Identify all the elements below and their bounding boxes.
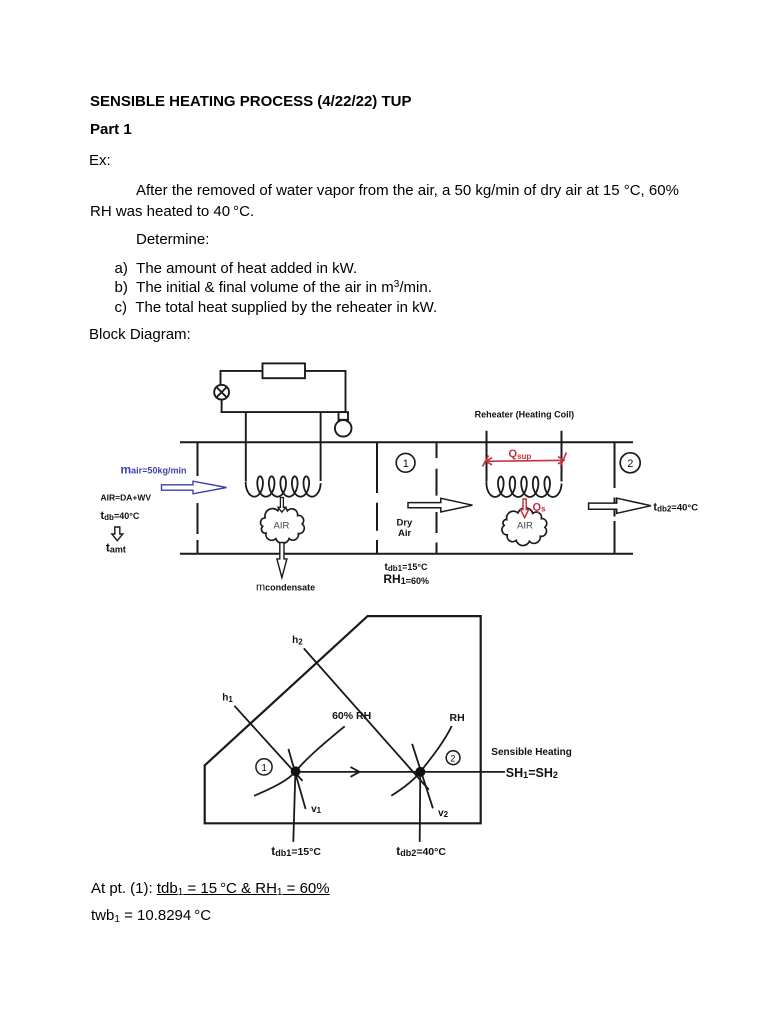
drop wire A / coil left support — [245, 412, 247, 481]
process line 1 to 2 — [296, 771, 505, 773]
svg-text:2: 2 — [450, 753, 455, 763]
60% RH curve — [254, 726, 345, 796]
Qs red arrow — [521, 499, 529, 518]
duct dashed divider 2 — [376, 442, 378, 554]
small down arrow — [112, 527, 123, 541]
svg-text:RH1=60%: RH1=60% — [383, 572, 429, 586]
svg-text:mcondensate: mcondensate — [256, 582, 315, 594]
v1 line — [288, 749, 305, 809]
label Determine: — [136, 231, 209, 248]
svg-text:Air: Air — [398, 528, 412, 539]
svg-text:h1: h1 — [222, 693, 233, 705]
svg-text:tdb2=40°C: tdb2=40°C — [396, 844, 446, 858]
svg-text:Sensible Heating: Sensible Heating — [491, 747, 572, 758]
RH curve at 2 — [391, 726, 451, 796]
wire left lower — [221, 400, 223, 413]
tdb1 vertical — [293, 772, 295, 842]
v2 line — [412, 744, 433, 809]
svg-text:1: 1 — [261, 763, 267, 774]
svg-text:Qsup: Qsup — [509, 448, 532, 461]
condensate arrow — [277, 543, 287, 578]
enthalpy line h2 — [304, 648, 429, 789]
svg-text:AIR: AIR — [517, 521, 533, 532]
svg-text:tdb2=40°C: tdb2=40°C — [653, 502, 698, 514]
label Block Diagram: — [89, 326, 191, 343]
svg-text:tamt: tamt — [106, 541, 126, 555]
duct top wall — [180, 441, 633, 443]
cooling coil — [246, 476, 321, 496]
paragraph — [90, 181, 679, 222]
point 1 dot — [291, 766, 301, 776]
document title — [90, 93, 411, 110]
wire top right — [305, 371, 346, 412]
Qsup double arrow — [483, 453, 567, 467]
svg-text:h2: h2 — [292, 635, 303, 647]
svg-text:v2: v2 — [438, 808, 449, 819]
duct dashed divider 3 — [436, 443, 438, 554]
bottom note line 2 — [91, 907, 211, 924]
cloud 2 — [502, 508, 547, 546]
point circle label 2 — [446, 751, 460, 765]
tdb2 vertical — [419, 772, 422, 842]
svg-text:tdb1=15°C: tdb1=15°C — [271, 844, 321, 858]
duct bottom wall — [180, 553, 633, 555]
svg-text:v1: v1 — [311, 804, 322, 815]
duct station circle 2 — [620, 453, 640, 473]
svg-text:mair=50kg/min: mair=50kg/min — [121, 463, 187, 477]
bottom note line 1 — [91, 880, 330, 897]
svg-text:Dry: Dry — [397, 518, 414, 529]
duct station circle 1 — [396, 453, 415, 472]
duct right wall — [614, 442, 616, 554]
heading Part 1 — [90, 121, 132, 138]
cloud 1 — [261, 507, 305, 543]
drop wire B / coil right support — [320, 412, 322, 481]
reheater left support — [486, 431, 488, 482]
svg-text:AIR=DA+WV: AIR=DA+WV — [101, 493, 152, 503]
svg-text:2: 2 — [627, 458, 633, 470]
coil to cloud small arrow — [278, 498, 286, 513]
wire bottom — [221, 411, 347, 413]
dry air arrow — [408, 498, 473, 512]
svg-text:Reheater (Heating Coil): Reheater (Heating Coil) — [475, 410, 575, 420]
blue inlet arrow — [162, 481, 227, 494]
pump circle — [335, 420, 352, 437]
point 2 dot — [415, 767, 425, 777]
list item a — [115, 259, 438, 316]
duct left dashed divider — [197, 442, 199, 554]
svg-text:tdb=40°C: tdb=40°C — [101, 510, 140, 522]
valve circle-X — [214, 385, 229, 400]
process arrowhead — [351, 767, 360, 777]
point circle label 1 — [256, 759, 272, 775]
svg-text:1: 1 — [403, 458, 409, 470]
svg-text:SH1=SH2: SH1=SH2 — [506, 766, 558, 780]
svg-text:RH: RH — [450, 712, 465, 724]
wire top left — [221, 371, 263, 385]
svg-text:Qs: Qs — [533, 502, 547, 514]
reheater right support — [561, 431, 563, 482]
exit arrow — [589, 498, 651, 513]
label Ex: — [89, 152, 111, 169]
pump inlet square — [339, 412, 349, 420]
reheater coil — [486, 477, 561, 497]
svg-text:60% RH: 60% RH — [332, 710, 371, 722]
psychrometric chart outline — [205, 616, 481, 823]
svg-text:AIR: AIR — [274, 521, 290, 532]
enthalpy line h1 — [234, 706, 302, 781]
condenser rectangle — [263, 363, 306, 378]
